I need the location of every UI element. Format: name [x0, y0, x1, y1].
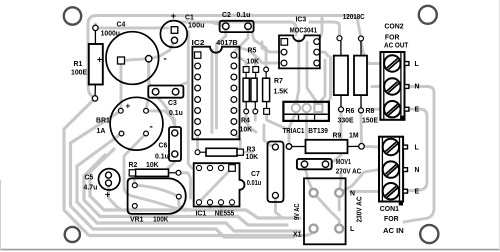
svg-text:100E: 100E — [71, 70, 87, 77]
varistor MOV1 — [297, 159, 361, 176]
wire C2 left pad — [198, 22, 226, 26]
wire C4 round pad down to BR1 TR pad — [146, 59, 149, 111]
svg-text:C7: C7 — [251, 171, 260, 178]
svg-text:NE555: NE555 — [215, 210, 235, 217]
wire R7 bottom square to TRIAC — [267, 111, 289, 130]
svg-text:C2: C2 — [222, 12, 231, 19]
wire C4 round pad to C3 left pad — [149, 59, 156, 92]
svg-text:L: L — [415, 145, 419, 152]
svg-text:-: - — [150, 122, 153, 133]
svg-text:9V AC: 9V AC — [294, 203, 301, 220]
wire left of R6 vertical 2 — [320, 60, 325, 102]
wire C1 round pad to C4 — [150, 40, 175, 59]
wire nested corner 5 — [90, 149, 300, 218]
svg-text:+: + — [126, 102, 131, 111]
svg-text:R3: R3 — [247, 146, 256, 153]
svg-text:0.01u: 0.01u — [247, 180, 261, 187]
svg-text:VR1: VR1 — [130, 217, 144, 224]
wire VR1 right pad down — [179, 197, 185, 211]
wire nested corner 2 — [71, 111, 295, 237]
wire C5 bottom pad down — [109, 183, 123, 210]
svg-text:1000u: 1000u — [101, 30, 120, 37]
resistor R7 — [263, 67, 288, 114]
resistor R5 — [247, 48, 260, 114]
wire IC2 inner vertical 1 — [211, 50, 214, 133]
wire IC2 pad to R3 square pad — [234, 133, 240, 150]
wire VR1 TL pad to wiper — [135, 185, 179, 196]
wire to CON1 E — [350, 190, 379, 193]
svg-text:C4: C4 — [117, 22, 126, 29]
svg-text:R8: R8 — [366, 108, 375, 115]
svg-text:TRIAC1: TRIAC1 — [283, 128, 305, 135]
wire R6 bottom pad to MOV right pad — [326, 109, 342, 164]
svg-text:N: N — [415, 167, 420, 174]
capacitor C4 — [97, 22, 167, 85]
wire top outer band — [88, 16, 361, 99]
wire R5b top to IC2 — [240, 48, 256, 70]
mounting hole top-right — [419, 6, 437, 24]
svg-text:BT139: BT139 — [308, 128, 328, 135]
svg-text:R1: R1 — [74, 61, 83, 68]
capacitor C3 — [148, 86, 183, 118]
svg-text:-: - — [164, 54, 167, 65]
wire X1 diagonal — [314, 193, 340, 229]
svg-text:10K: 10K — [146, 162, 159, 169]
svg-text:12018C: 12018C — [343, 14, 365, 21]
svg-text:C6: C6 — [159, 143, 168, 150]
wire trace left of IC2 vertical — [188, 32, 192, 168]
capacitor C7 — [247, 142, 284, 203]
wire CON2 L stub left — [361, 42, 380, 64]
wire band drop to IC3 right — [317, 16, 322, 40]
wire IC3 inner vertical 2 — [307, 42, 318, 104]
wire IC1 diagonal — [199, 168, 232, 202]
wire C1 area to IC3 notch — [180, 22, 296, 35]
svg-text:R9: R9 — [333, 132, 342, 139]
wire C2 right pad to IC2 — [234, 26, 248, 52]
resistor R4 — [240, 67, 253, 134]
wire R3 right pad to C7 — [240, 151, 252, 154]
wire IC2 inner vertical 2 — [215, 55, 218, 128]
transformer X1 — [293, 178, 364, 244]
svg-text:1A: 1A — [97, 128, 106, 135]
wire TRIAC mid pad down — [305, 112, 308, 139]
IC U2 4017B — [192, 40, 240, 140]
wire CON2 N stub left — [372, 85, 380, 88]
svg-text:N: N — [415, 84, 420, 91]
wire R1 top pad junction — [94, 24, 97, 28]
svg-text:FOR: FOR — [385, 35, 400, 42]
svg-text:C5: C5 — [85, 175, 94, 182]
svg-text:R2: R2 — [129, 162, 138, 169]
wire nested corner 1 (outermost) — [64, 98, 314, 235]
svg-text:0.1u: 0.1u — [169, 110, 183, 117]
wire R2 left pad to VR1 TL pad — [134, 173, 135, 186]
wire nested corner 3 — [77, 134, 300, 232]
svg-text:100K: 100K — [153, 217, 168, 224]
svg-text:230V AC: 230V AC — [357, 196, 364, 222]
triac TRIAC1 BT139 — [283, 102, 329, 135]
svg-text:FOR: FOR — [384, 216, 399, 223]
connector CON1 — [379, 137, 420, 236]
svg-text:MOV1: MOV1 — [336, 159, 351, 166]
wire R6 top pad up-left — [310, 22, 340, 38]
svg-text:IC3: IC3 — [296, 16, 307, 23]
wire C4 square pad down to BR1 pad — [120, 61, 123, 111]
svg-text:CON1: CON1 — [380, 206, 399, 213]
wire BR1 BR pad between C5 and VR1 — [124, 134, 192, 211]
wire X1 to CON1 N — [339, 170, 379, 193]
wire R5 top to IC2 — [234, 57, 246, 70]
wire X1 TR pad down — [338, 193, 341, 210]
svg-text:+: + — [105, 190, 110, 200]
svg-text:E: E — [415, 107, 420, 114]
svg-text:10K: 10K — [247, 59, 260, 66]
wire CON2 N right side down — [404, 87, 434, 223]
wire C2 left pad to IC2 — [217, 26, 226, 55]
resistor R2 — [129, 162, 181, 176]
svg-text:150E: 150E — [362, 118, 378, 125]
wire C7 bottom pad down — [275, 195, 295, 218]
capacitor C1 — [160, 11, 204, 47]
wire IC3 left pads horizontals — [262, 42, 284, 52]
svg-text:100u: 100u — [188, 22, 205, 29]
svg-text:BR1: BR1 — [96, 118, 110, 125]
svg-text:L: L — [415, 61, 419, 68]
svg-text:1M: 1M — [349, 132, 359, 139]
wire CON2 E to CON1 E right side — [405, 109, 427, 191]
svg-text:IC2: IC2 — [192, 40, 205, 47]
svg-text:AC IN: AC IN — [383, 228, 404, 235]
wire R3 left pad to IC2 pad — [196, 133, 199, 152]
svg-text:R5: R5 — [248, 48, 257, 55]
wire nested corner 4 — [84, 155, 287, 225]
IC U3 MOC3041 — [279, 16, 320, 68]
svg-text:CON2: CON2 — [384, 24, 403, 31]
wire C6 bottom pad — [168, 154, 175, 173]
svg-text:X1: X1 — [293, 232, 302, 239]
wire R5 bottom pad — [254, 111, 257, 120]
potentiometer VR1 — [128, 178, 186, 223]
svg-text:R4: R4 — [241, 117, 250, 124]
resistor R6 — [334, 36, 355, 125]
wire C6 top pad to C3 — [156, 95, 175, 133]
svg-text:0.1u: 0.1u — [155, 153, 169, 160]
svg-text:R6: R6 — [346, 108, 355, 115]
border bottom — [0, 249, 500, 251]
svg-text:0.1u: 0.1u — [237, 12, 251, 19]
svg-text:R7: R7 — [274, 78, 283, 85]
svg-text:AC OUT: AC OUT — [384, 43, 409, 50]
wire IC3 inner vertical to TRIAC pad — [296, 40, 299, 108]
mounting hole bottom-right — [420, 225, 438, 243]
wire R7 top pad up — [252, 32, 266, 70]
svg-text:270V AC: 270V AC — [336, 169, 361, 176]
resistor R3 — [195, 146, 258, 161]
mounting hole top-left — [64, 7, 81, 24]
svg-text:N: N — [350, 190, 355, 197]
IC U1 NE555 — [194, 163, 245, 217]
wire CON2 E stub left — [371, 108, 380, 111]
svg-text:+: + — [171, 11, 176, 21]
wire IC1 bottom stubs — [209, 202, 212, 210]
wire left of R6 vertical — [328, 57, 331, 102]
svg-text:4017B: 4017B — [216, 40, 237, 47]
svg-text:330E: 330E — [338, 118, 354, 125]
wire IC3 right pad stub — [317, 52, 328, 56]
wire MOV left pad to X1 — [305, 164, 314, 193]
capacitor C2 — [220, 12, 254, 32]
bridge rectifier BR1 — [96, 97, 163, 150]
svg-text:+: + — [97, 55, 102, 65]
capacitor C6 — [155, 127, 181, 161]
svg-text:E: E — [415, 189, 420, 196]
resistor R9 — [286, 132, 364, 153]
wire X1 N pad up — [339, 172, 341, 193]
wire C3 right pad up — [176, 82, 189, 92]
svg-text:MOC3041: MOC3041 — [290, 27, 318, 34]
svg-text:C3: C3 — [168, 100, 177, 107]
svg-text:10K: 10K — [240, 127, 253, 134]
wire R2 right pad to IC1 — [179, 173, 191, 198]
wire R9 left pad to TRIAC — [289, 108, 296, 146]
wire BR1 TR pad right — [146, 111, 175, 126]
wire R9 right pad to CON1 L — [362, 145, 380, 149]
svg-text:C1: C1 — [185, 15, 194, 22]
resistor R1 — [71, 25, 103, 101]
svg-text:1.5K: 1.5K — [274, 89, 289, 96]
mounting hole bottom-left — [65, 227, 80, 242]
wire R4 bottom pads down — [246, 111, 256, 132]
wire R8 bottom to R9 right pad — [360, 110, 363, 146]
capacitor C5 — [84, 169, 120, 200]
wire C4 square pad to round pad — [121, 59, 149, 61]
wire C4 pad to C1 — [96, 27, 169, 30]
svg-text:L: L — [350, 226, 354, 233]
svg-text:IC1: IC1 — [196, 210, 207, 217]
connector CON2 — [380, 24, 419, 120]
resistor R8 — [354, 36, 378, 125]
svg-text:4.7u: 4.7u — [84, 185, 98, 192]
svg-text:10K: 10K — [246, 154, 259, 161]
